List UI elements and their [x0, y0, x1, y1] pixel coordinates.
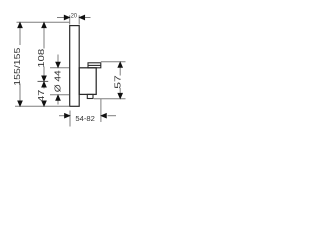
dimension dia 44 arrows	[56, 62, 61, 100]
dimension 155/155 label	[13, 47, 22, 86]
svg-text:155/155: 155/155	[13, 47, 22, 86]
dimension 155/155 arrows	[18, 22, 23, 106]
dimension 57 arrows	[118, 62, 123, 99]
dimension 20 arrows	[64, 15, 85, 20]
dimension 108 label	[37, 48, 46, 68]
svg-text:47: 47	[37, 89, 46, 102]
dimension dia 44 label	[54, 70, 63, 93]
dimension 47 arrows	[42, 82, 47, 107]
dimension 20 lines and extensions	[57, 15, 91, 24]
svg-text:54-82: 54-82	[75, 114, 95, 123]
dimension dia 44 extension ticks and tails	[50, 55, 69, 105]
handle centerline tick	[38, 80, 49, 82]
bottom reference line	[15, 105, 70, 107]
dimension 108 line	[43, 23, 45, 77]
dimension 54-82 arrows	[65, 113, 107, 118]
svg-text:20: 20	[71, 12, 78, 19]
dimension 155/155 line	[19, 23, 21, 102]
svg-text:108: 108	[37, 48, 46, 68]
dimension 47 label	[37, 89, 46, 102]
svg-text:Ø 44: Ø 44	[54, 70, 63, 93]
handle clip (bottom button)	[87, 94, 93, 98]
plate body (side profile rectangle)	[70, 26, 80, 107]
dimension 108 arrows	[42, 22, 47, 81]
dimension 54-82 extension lines and tails	[59, 99, 116, 127]
handle main body	[79, 68, 96, 95]
top reference line	[17, 21, 70, 23]
svg-text:57: 57	[113, 74, 122, 88]
dimension 47 line	[43, 86, 45, 102]
dimension 57 extension lines and line	[94, 62, 126, 99]
handle paddle (top lever)	[88, 63, 101, 68]
dimension 54-82 label	[75, 114, 95, 123]
dimension 57 label	[113, 74, 122, 88]
dimension 20 label	[71, 12, 78, 19]
